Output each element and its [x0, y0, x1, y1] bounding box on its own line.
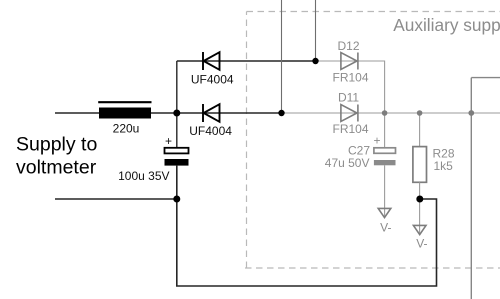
- wire: top feed vertical at x=281.5: [281, 0, 283, 113]
- resistor R28: [413, 147, 427, 183]
- wire: main lower net (black), y=113: [55, 112, 282, 114]
- diode D11 FR104 (gray): [341, 105, 358, 122]
- wire: top feed vertical at x=315.5: [315, 0, 317, 61]
- wire: R28 bottom to node: [419, 182, 421, 199]
- node: connector pin junction (gray): [468, 110, 474, 116]
- svg-text:V-: V-: [416, 237, 427, 251]
- svg-text:voltmeter: voltmeter: [16, 157, 97, 179]
- svg-text:V-: V-: [380, 221, 391, 235]
- node: inductor/diode junction: [173, 110, 180, 117]
- ground V- arrow right: [413, 225, 426, 234]
- svg-text:47u 50V: 47u 50V: [325, 156, 370, 170]
- capacitor C27 top plate: [374, 148, 396, 154]
- node: C27 top junction (gray): [382, 110, 388, 116]
- svg-text:FR104: FR104: [332, 122, 368, 136]
- svg-text:100u 35V: 100u 35V: [118, 169, 169, 183]
- ground V- arrow left: [378, 208, 391, 217]
- wire: C27 to V-: [384, 165, 386, 216]
- node: R28 bottom junction: [416, 196, 423, 203]
- capacitor 100u 35V bottom plate: [165, 159, 189, 166]
- wire: return loop (black) cap bottom -> down -> right -> up -> to node: [177, 166, 437, 286]
- node: lower net feed junction: [278, 110, 284, 116]
- node: R28 top junction (gray): [417, 110, 423, 116]
- svg-text:+: +: [373, 134, 380, 148]
- wire: C27 branch upper: [384, 113, 386, 148]
- wire: lower net gray continuation: [282, 112, 500, 114]
- svg-text:+: +: [165, 134, 172, 148]
- connector box at right: [471, 78, 500, 299]
- svg-text:D11: D11: [338, 91, 359, 105]
- svg-text:D12: D12: [337, 39, 359, 53]
- svg-text:1k5: 1k5: [434, 159, 454, 173]
- svg-text:220u: 220u: [113, 122, 140, 136]
- svg-text:Supply to: Supply to: [16, 133, 97, 155]
- capacitor C27 bottom plate: [374, 160, 396, 165]
- diode D12 FR104 (gray): [341, 53, 358, 70]
- capacitor 100u 35V top plate: [165, 148, 189, 154]
- wire: bottom-left net, y=199: [55, 198, 177, 200]
- wire: R28 branch upper: [419, 113, 421, 147]
- wire: node to V- right: [419, 199, 421, 233]
- wire: upper net gray continuation + drop to lower net: [316, 61, 385, 113]
- node: cap bottom junction: [173, 196, 180, 203]
- svg-text:UF4004: UF4004: [189, 124, 232, 138]
- node: upper net feed junction: [312, 58, 318, 64]
- wire: capacitor branch above C (black): [176, 113, 178, 148]
- inductor 220u body: [99, 108, 151, 119]
- dashed auxiliary-supply box: [245, 12, 500, 269]
- inductor 220u core line: [98, 101, 151, 103]
- wire: upper branch vertical (black): [176, 61, 178, 113]
- svg-text:UF4004: UF4004: [191, 72, 234, 86]
- diode D upper UF4004 (black): [203, 52, 220, 70]
- wire: upper net (black), y=61: [177, 60, 316, 62]
- svg-text:FR104: FR104: [332, 71, 368, 85]
- svg-text:Auxiliary supply: Auxiliary supply: [393, 15, 500, 35]
- diode D lower UF4004 (black): [203, 104, 220, 122]
